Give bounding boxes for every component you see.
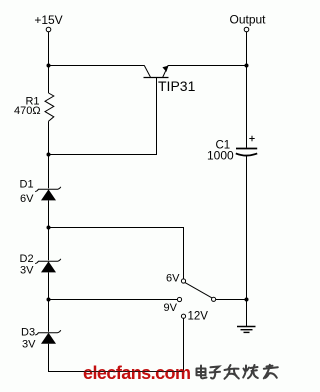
wire 6V node to D2 bbox=[48, 228, 50, 261]
wire ground lead bbox=[246, 300, 248, 327]
wire output lead bbox=[246, 32, 248, 66]
svg-text:D1: D1 bbox=[20, 178, 34, 190]
svg-text:12V: 12V bbox=[188, 311, 209, 323]
svg-text:3V: 3V bbox=[22, 338, 36, 350]
zener diode D1 6V bbox=[20, 178, 61, 205]
ground bbox=[237, 327, 256, 333]
power terminal +15V bbox=[34, 13, 62, 32]
capacitor C1 1000 bbox=[207, 136, 257, 163]
wire 9V node to D3 bbox=[48, 300, 50, 332]
node junction 6V node bbox=[47, 226, 51, 230]
node junction +15V rail bbox=[47, 64, 51, 68]
svg-text:9V: 9V bbox=[164, 302, 178, 314]
wire D2 to 9V node bbox=[48, 272, 50, 299]
zener diode D2 3V bbox=[20, 253, 61, 277]
wire D1 to 6V node bbox=[48, 200, 50, 227]
switch arm bbox=[185, 283, 212, 298]
watermark chinese 友 bbox=[264, 365, 278, 379]
svg-text:elecfans.com: elecfans.com bbox=[83, 363, 190, 383]
switch throw 12V terminal bbox=[181, 311, 208, 323]
wire output to C1 bbox=[246, 66, 248, 148]
zener diode D3 3V bbox=[21, 326, 61, 350]
svg-text:+15V: +15V bbox=[34, 13, 62, 27]
svg-text:470Ω: 470Ω bbox=[14, 105, 41, 117]
svg-text:D3: D3 bbox=[21, 326, 35, 338]
wire rail to R1 bbox=[48, 66, 50, 94]
watermark chinese 烧 bbox=[243, 365, 258, 378]
wire R1 to base node bbox=[48, 121, 50, 154]
svg-text:1000: 1000 bbox=[207, 149, 234, 163]
svg-text:TIP31: TIP31 bbox=[158, 78, 196, 94]
wire emitter rail bbox=[168, 65, 248, 67]
watermark chinese 子 bbox=[210, 367, 220, 379]
svg-text:3V: 3V bbox=[20, 264, 34, 276]
watermark chinese 发 bbox=[225, 365, 239, 379]
watermark chinese 电 bbox=[197, 366, 207, 379]
wire 6V tap bbox=[49, 228, 184, 279]
node junction ground rail bbox=[245, 298, 249, 302]
switch throw 9V terminal bbox=[164, 297, 182, 313]
wire base connection bbox=[49, 78, 157, 155]
node junction output rail bbox=[245, 64, 249, 68]
wire collector rail bbox=[49, 65, 145, 67]
wire bottom rail overlay bbox=[84, 371, 184, 373]
svg-text:6V: 6V bbox=[166, 273, 180, 285]
wire D3 to 12V terminal bbox=[49, 318, 184, 371]
svg-text:D2: D2 bbox=[20, 253, 34, 265]
wire 9V tap bbox=[49, 299, 178, 301]
wire base node to D1 bbox=[48, 155, 50, 189]
node junction 9V node bbox=[47, 298, 51, 302]
svg-text:Output: Output bbox=[229, 13, 266, 27]
resistor R1 470ohm bbox=[14, 93, 54, 121]
output terminal bbox=[229, 13, 266, 32]
svg-text:6V: 6V bbox=[20, 193, 34, 205]
switch throw 6V terminal bbox=[166, 273, 186, 285]
wire +15V lead bbox=[48, 32, 50, 66]
transistor Q1 TIP31 bbox=[144, 66, 196, 95]
node junction base node bbox=[47, 153, 51, 157]
wire pole to ground node bbox=[216, 299, 247, 301]
wire C1 to ground node bbox=[246, 156, 248, 300]
switch pole terminal bbox=[212, 297, 216, 301]
